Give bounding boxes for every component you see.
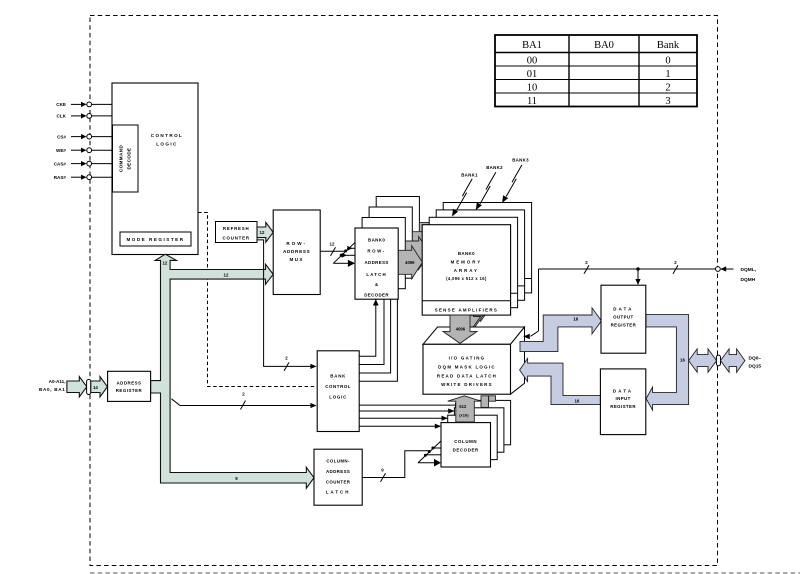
svg-text:I/O GATING: I/O GATING [449, 355, 486, 360]
dq data bus loop output/input registers to pads [646, 315, 689, 411]
svg-text:12: 12 [330, 242, 335, 247]
io gating / dqm mask logic block (3d) [423, 327, 525, 394]
svg-text:(4,096 x 512 x 16): (4,096 x 512 x 16) [446, 276, 487, 281]
svg-text:BANK2: BANK2 [486, 165, 503, 170]
data input register block [600, 369, 645, 435]
svg-text:ADDRESS: ADDRESS [326, 469, 350, 474]
refresh counter block [216, 222, 258, 243]
svg-text:LOGIC: LOGIC [329, 394, 347, 399]
control logic block U-CTRL [112, 83, 198, 255]
svg-text:WE#: WE# [56, 148, 66, 153]
svg-text:BANK3: BANK3 [512, 157, 529, 162]
svg-text:DQ0–: DQ0– [749, 356, 762, 362]
svg-text:MUX: MUX [289, 257, 303, 262]
svg-text:0: 0 [665, 56, 670, 67]
svg-text:CONTROL: CONTROL [151, 133, 184, 138]
address pad capsule [87, 379, 91, 394]
svg-text:COMMAND: COMMAND [119, 145, 124, 173]
chip boundary dashed border [90, 16, 718, 566]
svg-text:MODE REGISTER: MODE REGISTER [126, 237, 184, 242]
bank2 label and bolt [473, 165, 503, 211]
input pin CLK [57, 113, 112, 118]
svg-text:DQMH: DQMH [741, 277, 756, 283]
svg-text:12: 12 [260, 230, 265, 235]
svg-text:REFRESH: REFRESH [223, 226, 250, 231]
svg-text:COUNTER: COUNTER [326, 479, 351, 484]
svg-text:4096: 4096 [405, 260, 415, 265]
address input arrow inner (14) [91, 377, 108, 397]
svg-text:(x16): (x16) [459, 412, 469, 417]
bank0 row latch with decoder [355, 228, 398, 299]
svg-text:11: 11 [527, 96, 537, 107]
svg-text:BANK1: BANK1 [461, 172, 478, 177]
column address counter latch block [314, 449, 362, 505]
svg-text:16: 16 [574, 398, 579, 403]
svg-text:2: 2 [665, 83, 670, 94]
svg-text:SENSE AMPLIFIERS: SENSE AMPLIFIERS [435, 308, 498, 313]
input pin CS# [57, 134, 112, 139]
svg-text:16: 16 [573, 317, 578, 322]
svg-text:01: 01 [527, 69, 538, 80]
svg-text:1: 1 [665, 69, 670, 80]
svg-text:READ DATA LATCH: READ DATA LATCH [437, 373, 497, 378]
svg-text:ARRAY: ARRAY [454, 268, 479, 273]
dqm wire from pads [523, 260, 756, 339]
svg-text:DECODER: DECODER [364, 293, 389, 298]
bank2 row latch [369, 207, 412, 278]
svg-text:12: 12 [224, 272, 229, 277]
input pin RAS# [54, 175, 113, 180]
bank3 memory array [443, 203, 531, 293]
svg-text:ADDRESS: ADDRESS [117, 381, 142, 386]
bank1 latch-to-array bus [405, 237, 429, 270]
wire refresh region to bank control (2) upper [257, 240, 317, 371]
svg-text:CS#: CS# [57, 134, 66, 139]
bank0 latch-to-array bus (4096) [398, 246, 422, 279]
bank1 row latch [362, 218, 405, 289]
svg-text:10: 10 [527, 83, 538, 94]
bank select table [495, 35, 697, 107]
svg-text:DECODE: DECODE [127, 147, 132, 169]
bank1-3 sense amp to io gating grey arrows (behind front array) [467, 286, 495, 322]
svg-text:00: 00 [527, 56, 538, 67]
write data bus input register to drivers (16) [520, 358, 601, 404]
svg-text:LATCH: LATCH [366, 272, 387, 277]
svg-text:ROW-: ROW- [286, 241, 307, 246]
column decoder stack bank2 [454, 408, 504, 452]
data output register block [601, 285, 646, 353]
row address mux block [273, 210, 320, 295]
svg-text:REGISTER: REGISTER [116, 388, 143, 393]
grey slivers of stacked 512 buses [481, 396, 489, 408]
input pin WE# [56, 148, 112, 153]
bank1 label and bolt [449, 172, 478, 218]
svg-text:INPUT: INPUT [616, 396, 631, 401]
bank0 memory array [422, 225, 510, 315]
wire BA to bank control (2) lower [172, 392, 317, 410]
input pin CKE [56, 102, 112, 107]
input pin CAS# [54, 161, 113, 166]
svg-text:WRITE DRIVERS: WRITE DRIVERS [441, 382, 493, 387]
dq pad double arrows [689, 349, 717, 372]
read data bus gating to output register (16) [520, 308, 601, 352]
address input arrow A0-A11,BA0,BA1 [67, 377, 87, 397]
svg-text:ROW-: ROW- [367, 249, 386, 254]
mode register block [120, 232, 191, 246]
svg-text:BA0: BA0 [594, 40, 614, 51]
svg-text:BA0, BA1: BA0, BA1 [39, 387, 66, 392]
bank3 latch-to-array bus [419, 218, 443, 251]
svg-text:3: 3 [665, 96, 670, 107]
bank1 memory array [429, 217, 517, 307]
arrow into bank0 latch bottom [373, 299, 379, 305]
svg-text:Bank: Bank [657, 40, 680, 51]
wires bank control to row latches (staircase) [359, 299, 376, 356]
svg-text:CLK: CLK [57, 114, 67, 119]
address register block [108, 371, 151, 401]
dashed control path to bank control logic [198, 213, 317, 387]
address bus (green) trunk with mode-register arrow, mux arrow, counter arrow [151, 254, 314, 488]
column counter output wire (9) [362, 451, 429, 482]
column decoder stack bank3 [461, 400, 511, 444]
bank0 column decoder [441, 423, 491, 467]
svg-text:14: 14 [93, 385, 98, 390]
svg-text:BANK0: BANK0 [368, 238, 385, 243]
svg-text:REGISTER: REGISTER [611, 322, 637, 327]
svg-text:DATA: DATA [613, 388, 633, 393]
svg-text:OUTPUT: OUTPUT [613, 315, 633, 320]
svg-text:12: 12 [162, 261, 167, 266]
svg-text:DQ15: DQ15 [749, 364, 762, 370]
page bottom dashed line [90, 572, 800, 574]
wires bank control to column decoders [359, 404, 461, 406]
svg-text:DQM MASK LOGIC: DQM MASK LOGIC [438, 364, 496, 369]
bank control logic block [317, 351, 359, 432]
svg-text:REGISTER: REGISTER [610, 404, 636, 409]
svg-text:DQML,: DQML, [741, 267, 757, 273]
bank3 label and bolt [500, 157, 529, 204]
svg-text:MEMORY: MEMORY [451, 260, 483, 265]
svg-text:BA1: BA1 [522, 40, 542, 51]
svg-text:ADDRESS: ADDRESS [364, 260, 388, 265]
svg-text:A0-A11,: A0-A11, [49, 379, 66, 384]
svg-text:BANK0: BANK0 [458, 251, 475, 256]
refresh counter to row mux bus arrow (12) [257, 222, 273, 242]
bank3 row latch [376, 197, 419, 268]
svg-text:LATCH: LATCH [326, 490, 351, 495]
svg-text:BANK: BANK [330, 374, 346, 379]
svg-text:CKE: CKE [56, 102, 66, 107]
bank0 sense amp to io gating bus (4096) [443, 315, 477, 343]
svg-text:LOGIC: LOGIC [156, 142, 178, 147]
svg-text:DECODER: DECODER [453, 448, 479, 453]
row mux to latch wire (12) with fan [320, 242, 355, 267]
command decode block [113, 125, 139, 192]
svg-text:ADDRESS: ADDRESS [283, 249, 310, 254]
svg-text:DATA: DATA [613, 307, 633, 312]
svg-text:RAS#: RAS# [54, 175, 67, 180]
svg-text:512: 512 [459, 404, 467, 409]
bank2 latch-to-array bus [412, 227, 436, 260]
svg-text:CAS#: CAS# [54, 161, 67, 166]
svg-text:4096: 4096 [456, 327, 466, 332]
column decoder to io gating bus (512 x16) [448, 396, 481, 422]
column decoder stack bank1 [448, 415, 498, 459]
arrows into column decoders [455, 403, 461, 408]
bank2 memory array [436, 210, 524, 300]
svg-text:COLUMN-: COLUMN- [326, 459, 350, 464]
svg-text:COLUMN: COLUMN [454, 439, 477, 444]
svg-text:16: 16 [680, 358, 685, 363]
svg-text:COUNTER: COUNTER [223, 236, 250, 241]
column address fan-out wires [418, 441, 441, 466]
svg-text:CONTROL: CONTROL [325, 384, 351, 389]
